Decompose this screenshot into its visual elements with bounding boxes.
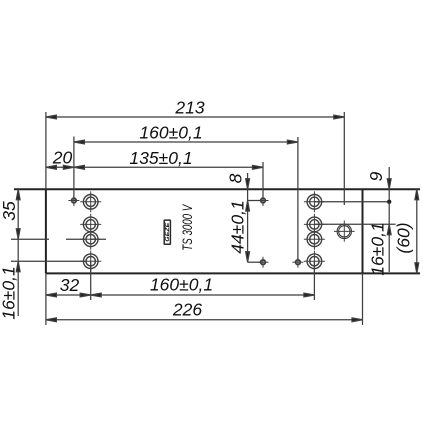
- extension line row1 right: [314, 201, 389, 203]
- small hole right bottom: [292, 257, 303, 268]
- dimension 35 line: [16, 189, 20, 239]
- svg-text:213: 213: [174, 98, 204, 118]
- small hole mid top: [258, 195, 269, 206]
- dimension 44 line: [246, 201, 250, 263]
- dimension 213 line: [46, 115, 344, 119]
- plate top edge line (extended both sides): [14, 188, 420, 190]
- dimension 135 line: [74, 165, 263, 169]
- svg-text:8: 8: [226, 173, 246, 183]
- extension line small hole column 20: [73, 137, 75, 201]
- big hole right r1: [304, 191, 325, 212]
- dimension 32 line: [46, 293, 91, 297]
- svg-text:TS 3000 V: TS 3000 V: [179, 204, 195, 251]
- dimension 8 line vertical: [246, 173, 250, 201]
- plate bottom edge line (extended right): [46, 272, 420, 274]
- big hole left r3: [80, 229, 101, 250]
- dimension 160 top line: [74, 140, 298, 144]
- extension line mid small hole column 135: [262, 162, 264, 201]
- svg-text:135±0,1: 135±0,1: [129, 148, 192, 168]
- centerline (dash-dot) through left hole row3: [11, 238, 106, 240]
- svg-text:160±0,1: 160±0,1: [150, 275, 213, 295]
- dimension 16 right line: [387, 202, 391, 272]
- svg-text:20: 20: [52, 148, 73, 168]
- big hole left r2: [80, 214, 101, 235]
- svg-text:(60): (60): [394, 222, 414, 253]
- dimension 60 line: [415, 189, 419, 273]
- extension line left big hole column below: [90, 261, 92, 300]
- plate outline: [46, 189, 363, 273]
- extension line right big hole column below: [313, 261, 315, 300]
- svg-text:160±0,1: 160±0,1: [139, 123, 202, 143]
- big hole left r1: [80, 191, 101, 212]
- dimension 16 left line: [16, 239, 20, 316]
- big hole right r2: [304, 214, 325, 235]
- extension line right small hole column 160: [297, 137, 299, 262]
- svg-text:16±0,1: 16±0,1: [0, 266, 19, 319]
- extension line spindle 213: [343, 112, 345, 205]
- dimension 20 line: [46, 165, 74, 169]
- dimension 8 connector row: [248, 200, 263, 202]
- extension line left edge above plate: [45, 112, 47, 189]
- big hole left r4: [80, 251, 101, 272]
- dimension 160 bottom line: [91, 293, 315, 297]
- dimension 9 line: [387, 167, 391, 204]
- big hole right r3: [304, 229, 325, 250]
- spindle hole: [334, 221, 355, 242]
- extension line row4 left: [11, 260, 86, 262]
- GEZE logo: [164, 220, 171, 244]
- svg-text:35: 35: [0, 201, 19, 221]
- svg-text:9: 9: [366, 171, 386, 181]
- extension line left edge below plate: [45, 273, 47, 325]
- dimension 226 line: [46, 318, 363, 322]
- small hole top left: [68, 195, 79, 206]
- svg-text:226: 226: [172, 300, 202, 320]
- dimension 44 connector bottom: [248, 261, 263, 263]
- big hole right r4: [304, 251, 325, 272]
- svg-text:32: 32: [60, 275, 80, 295]
- svg-text:44±0,1: 44±0,1: [228, 200, 248, 253]
- svg-text:16±0,1: 16±0,1: [368, 222, 388, 275]
- extension line row2 right: [314, 223, 395, 225]
- small hole mid bottom: [258, 257, 269, 268]
- svg-text:GEZE: GEZE: [165, 222, 171, 242]
- extension line right edge below plate: [362, 273, 364, 325]
